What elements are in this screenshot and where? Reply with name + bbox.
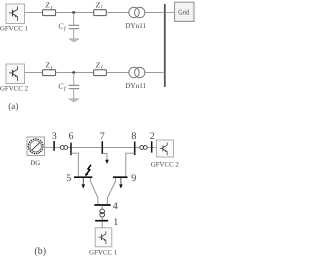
- wire Zl to transformer (row2): [106, 72, 129, 74]
- svg-text:DG: DG: [30, 160, 40, 167]
- bus tick node 7: [101, 141, 103, 154]
- line node9 to node4: [107, 178, 115, 205]
- svg-text:Z: Z: [45, 61, 50, 70]
- svg-text:Z: Z: [96, 61, 101, 70]
- converter U1 GFVCC 1 (part a): [6, 4, 25, 24]
- branch node8 to node9: [126, 153, 135, 177]
- svg-text:Grid: Grid: [178, 7, 189, 16]
- busbar node 1: [95, 220, 108, 222]
- wire Zl to transformer (row1): [106, 12, 129, 14]
- converter GFVCC 2 box (part b): [157, 140, 174, 157]
- wire node4 to transformer: [101, 206, 103, 209]
- svg-text:GFVCC 1: GFVCC 1: [89, 250, 117, 257]
- svg-text:(a): (a): [8, 101, 18, 111]
- svg-text:2: 2: [150, 131, 155, 142]
- wire transformer to bus (row1): [145, 12, 164, 14]
- ground (row2): [69, 99, 79, 102]
- svg-text:Z: Z: [96, 1, 101, 10]
- wire Zf to Zl (row2): [56, 72, 94, 74]
- converter U2 GFVCC 2 (part a): [6, 64, 25, 84]
- transformer T2 DYn11 (row2): [129, 67, 145, 77]
- wire converter to Zf (row1): [25, 12, 43, 14]
- converter GFVCC 1 box (part b): [95, 228, 112, 247]
- wire transformer to node1: [101, 217, 103, 220]
- impedance Zf (row1): [43, 10, 56, 16]
- capacitor Cf (row1): [69, 13, 80, 39]
- impedance Zl (row1): [94, 10, 107, 16]
- wire Zf to Zl (row1): [56, 12, 94, 14]
- transformer Tb3 (4-1): [100, 209, 105, 217]
- svg-text:GFVCC 2: GFVCC 2: [0, 86, 29, 93]
- capacitor Cf (row2): [69, 73, 80, 99]
- svg-text:DYn11: DYn11: [125, 82, 146, 90]
- svg-text:3: 3: [52, 131, 57, 142]
- transformer T1 DYn11 (row1): [129, 7, 145, 17]
- bus tick node 6: [70, 143, 72, 156]
- svg-text:5: 5: [66, 173, 71, 184]
- fault lightning bolt: [85, 165, 91, 177]
- wire transformer to bus (row2): [145, 72, 164, 74]
- svg-text:8: 8: [131, 131, 136, 142]
- svg-text:f: f: [64, 86, 67, 92]
- svg-text:4: 4: [113, 201, 118, 212]
- transformer Tb2 (8-2): [140, 146, 147, 150]
- svg-text:Z: Z: [45, 1, 50, 10]
- svg-text:9: 9: [131, 173, 136, 184]
- bus tick node 8: [134, 142, 136, 156]
- svg-text:GFVCC 2: GFVCC 2: [151, 162, 180, 169]
- busbar node 5: [74, 176, 92, 178]
- svg-text:1: 1: [113, 217, 118, 228]
- ground (row1): [69, 39, 79, 42]
- node junction dot (row2): [72, 71, 75, 74]
- svg-text:6: 6: [69, 131, 74, 142]
- svg-text:(b): (b): [34, 246, 46, 257]
- branch node6 to node5: [71, 153, 78, 177]
- svg-text:f: f: [64, 26, 67, 32]
- bus tick node 2: [151, 141, 153, 152]
- wire converter to Zf (row2): [25, 72, 43, 74]
- DG box (part b): [27, 137, 45, 156]
- transformer Tb1 (3-6): [60, 146, 67, 150]
- main wire (part b): [45, 147, 157, 149]
- wire node1 to converter: [101, 222, 103, 228]
- wire bus to grid: [166, 12, 175, 14]
- busbar node 9: [113, 176, 128, 178]
- impedance Zf (row2): [43, 70, 56, 76]
- bus PCC vertical bar (part a): [164, 4, 166, 87]
- svg-text:7: 7: [100, 131, 105, 142]
- svg-text:DYn11: DYn11: [125, 22, 146, 30]
- busbar node 4: [94, 204, 110, 206]
- line node5 to node4: [90, 178, 98, 205]
- node junction dot (row1): [72, 11, 75, 14]
- svg-text:GFVCC 1: GFVCC 1: [0, 26, 28, 33]
- impedance Zl (row2): [94, 70, 107, 76]
- load arrow at node 7: [102, 154, 108, 164]
- load arrow at node 5: [82, 178, 86, 189]
- grid box: [175, 2, 194, 21]
- load arrow at node 9: [119, 178, 123, 189]
- bus tick node 3: [53, 141, 55, 151]
